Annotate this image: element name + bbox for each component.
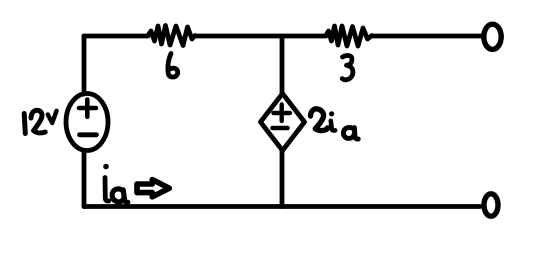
wire bottom segment	[84, 204, 480, 209]
wire middle vertical lower	[280, 150, 285, 207]
label 12V	[24, 114, 25, 134]
dependent source diamond	[261, 94, 305, 151]
wire top-middle segment	[195, 34, 326, 39]
label 2ia (dependent source value)	[311, 109, 328, 131]
wire left vertical lower	[82, 151, 87, 207]
voltage source plus sign	[79, 100, 96, 117]
label ia (current)	[105, 178, 109, 202]
wire top-right segment	[372, 34, 481, 39]
resistor R1 (6 ohm) zigzag	[148, 26, 195, 46]
dependent source minus sign	[273, 126, 288, 131]
resistor R2 (3 ohm) zigzag	[326, 26, 372, 46]
wire left vertical upper	[82, 36, 87, 94]
terminal node top-right	[484, 24, 501, 49]
label 3	[342, 55, 353, 79]
label 6	[168, 54, 178, 78]
voltage source V1 circle	[66, 94, 108, 151]
terminal node bottom-right	[484, 194, 498, 216]
current direction arrow	[137, 180, 169, 197]
voltage source minus sign	[80, 132, 97, 137]
wire middle vertical upper	[280, 36, 285, 94]
dependent source plus sign	[274, 105, 291, 122]
wire top-left segment	[84, 34, 148, 39]
